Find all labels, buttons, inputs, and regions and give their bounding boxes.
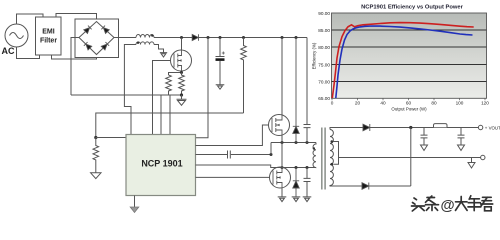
diode D9 secondary bottom [362,183,369,190]
bridge diode bottom-right [101,42,109,50]
node rail fb resistor [242,36,245,39]
ground aux winding [160,53,167,57]
boost diode D5 [192,34,198,40]
boost mosfet Q1 [171,50,192,71]
capacitor C5 lower divider [304,168,311,198]
svg-text:40: 40 [380,101,386,106]
node L1 aux polarity dot [137,42,139,44]
op chip NCP1901 U1 [126,135,196,196]
gridline 75 [332,64,487,66]
wire aux winding to chip ZCD [124,45,136,135]
svg-text:NCP 1901: NCP 1901 [141,159,182,169]
diode D6 upper hb [293,38,299,144]
svg-text:20: 20 [355,101,361,106]
output inductor L2 [434,124,448,128]
wire chip gate2 drive [196,176,270,178]
node rail upper diode [295,36,298,39]
node rail vcc [207,36,210,39]
node lower bus diode [295,166,298,169]
node tap upper [331,140,334,143]
gridline 85 [332,29,487,31]
svg-text:80: 80 [431,101,437,106]
x axis ticks [332,98,485,100]
y axis labels [318,11,330,101]
node lower bus cap [306,166,309,169]
svg-text:@: @ [441,198,455,214]
EMI filter box [36,17,62,55]
node sense ground [180,93,183,96]
wire ground return line [71,94,182,96]
node rectifier join [409,126,412,129]
wire EMI to bridge top [56,14,97,22]
wire midpoint bus [271,142,316,144]
ground C7 [458,138,465,151]
svg-text:85.00: 85.00 [318,28,330,33]
wire lower diode to join [369,185,411,187]
wire CS tap 1 [160,95,162,135]
wire Q1 gate to chip [153,61,171,135]
wire rectified output [370,127,479,129]
chart plot area [332,13,487,98]
terminal return [481,155,485,159]
wire secondary tap lower [333,158,338,165]
ground C5 [303,197,312,202]
wire chip drive cap line [196,154,272,156]
svg-text:0: 0 [331,101,334,106]
lower mosfet Q3 [270,167,291,188]
node bus diode [295,141,298,144]
svg-text:70.00: 70.00 [318,79,330,84]
node bus cap [306,141,309,144]
svg-text:Output Power (W): Output Power (W) [391,107,427,112]
resistor R1 sense left [166,75,172,95]
svg-text:EMI: EMI [42,29,55,36]
node lower bus fet column [281,166,284,169]
capacitor C4 upper divider [304,38,311,144]
blue efficiency curve [336,26,473,98]
wire secondary tap upper [333,142,338,158]
node bus fet [281,141,284,144]
bridge rectifier box [75,19,119,58]
transformer T1 secondary [330,130,333,187]
wire aux winding to ground [154,45,164,53]
wire Q2 drain from rail [281,38,283,116]
bridge diode top-left [84,26,92,34]
node rail upper fet [281,36,284,39]
svg-text:Efficiency (%): Efficiency (%) [312,42,317,69]
bulk capacitor C2 [216,38,225,84]
wire bridge to inductor [114,37,136,39]
boost inductor L1 aux winding [136,42,154,45]
wire Q1 source [169,71,182,75]
node rail bulk cap [219,36,222,39]
resistor R4 lower feedback [93,138,99,168]
svg-text:65.00: 65.00 [318,96,330,101]
node Q1 source [180,71,183,74]
bridge diode top-right [101,26,109,34]
transformer core [321,128,323,190]
capacitor C3 series [228,151,231,159]
node boost drain [180,36,183,39]
wire node up to midpoint bus [270,143,272,155]
watermark toutiao [412,196,493,214]
diode D8 secondary top [363,124,370,131]
ground bulk cap [216,83,225,89]
node L1 polarity dot [151,34,153,36]
upper mosfet Q2 [269,115,290,136]
wire Q3 drain [281,143,283,168]
x axis labels [331,101,490,106]
svg-text:90.00: 90.00 [318,11,330,16]
wire AC top to EMI [17,14,44,24]
svg-text:NCP1901 Efficiency vs Output P: NCP1901 Efficiency vs Output Power [361,5,464,11]
ground sense resistors [177,95,187,105]
gridline 80 [332,46,487,48]
gridline 70 [332,81,487,83]
ground D7 [292,197,301,202]
wire fb node to chip [96,137,126,139]
svg-text:AC: AC [2,46,15,56]
wire Q1 drain [181,38,183,51]
svg-text:60: 60 [406,101,412,106]
wire AC bottom to EMI [17,47,40,59]
diode D7 lower hb [293,168,299,198]
svg-text:80.00: 80.00 [318,45,330,50]
bridge diode bottom-left [84,42,92,50]
wire secondary bottom [330,185,362,188]
wire Q2 source to bus [281,135,283,143]
boost inductor L1 main winding [136,35,154,38]
node primary polarity dot [313,147,315,149]
bridge diamond [79,22,114,55]
wire Q3 source to ground [281,187,283,193]
node cap line to bus [270,153,273,156]
svg-text:+ VOUT: + VOUT [485,125,500,130]
wire feedback line [96,113,244,138]
wire secondary top [330,128,363,130]
wire Q2 gate to chip [196,125,269,146]
wire inductor to diode [154,37,192,39]
AC source [5,24,28,47]
ground chip [134,196,136,208]
svg-text:75.00: 75.00 [318,62,330,67]
wire EMI to bridge bottom [52,55,97,60]
node tap lower [331,163,334,166]
red efficiency curve [332,23,473,98]
resistor R3 upper feedback [241,38,247,114]
output capacitor C6 [421,128,428,145]
svg-text:100: 100 [456,101,464,106]
node feedback divider [94,136,97,139]
wire secondary center tap [339,157,481,159]
wire vcc rail to chip [196,38,209,138]
wire bridge DC minus down [71,38,79,96]
wire DC bus rail [199,37,308,39]
resistor R2 sense right [179,73,185,96]
wire CS tap 2 [169,95,171,135]
ground fb divider [91,168,101,179]
terminal +Vout [478,125,482,129]
output capacitor C7 [458,128,465,145]
wire chip HB sense [196,165,317,168]
ground return [468,158,475,169]
svg-text:Filter: Filter [40,38,57,45]
transformer T1 primary [313,143,316,168]
ground C6 [421,138,428,151]
ground Q3 [278,193,287,202]
wire join down to lower diode [410,128,412,187]
svg-text:120: 120 [481,101,489,106]
